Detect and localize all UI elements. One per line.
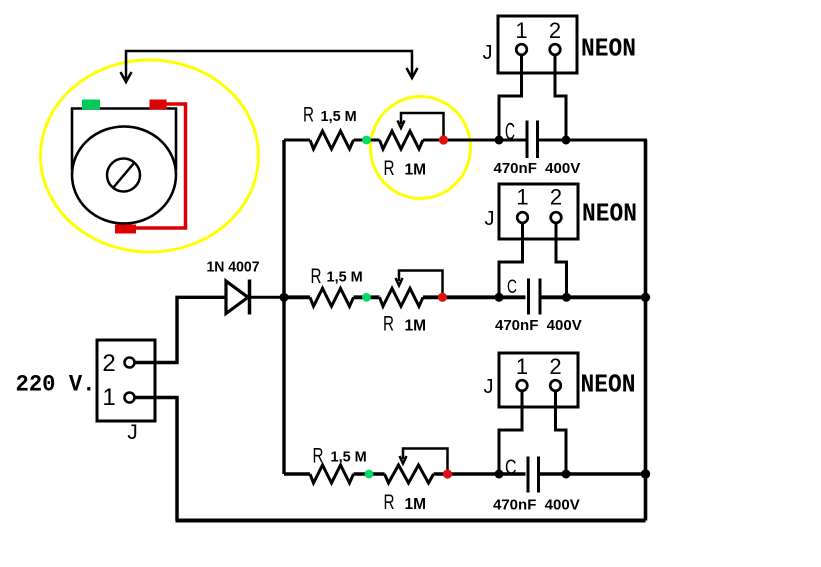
node: red wiper terminal (branch 1) [439,135,448,144]
wire: diode to left bus [248,296,284,299]
junction: branch 2 / right bus [641,293,650,302]
node: red wiper terminal (branch 3) [443,469,452,478]
neon socket box (branch 3) [499,353,578,407]
branch 2 wire [284,295,647,299]
junction: cap right (branch 3) [562,470,571,479]
junction: diode / left bus [280,293,289,302]
svg-text:C: C [505,119,515,146]
wire: mains pin 2 to diode [135,297,226,362]
svg-text:1: 1 [515,18,527,43]
wire: neon pin 1 to cap left (branch 3) [499,390,522,474]
diode D1 1N4007 [226,281,248,314]
callout wire [126,51,412,81]
svg-text:R: R [313,445,324,468]
capacitor C (branch 1) [527,121,538,159]
node: green wiper terminal (branch 2) [362,293,371,302]
svg-text:220 V.: 220 V. [16,372,96,398]
svg-text:J: J [127,421,138,444]
pot detail: body circle [72,127,176,224]
pot wiper bracket (branch 3) [403,449,448,471]
svg-text:1,5 M: 1,5 M [331,450,367,466]
pot detail: body outline [72,109,176,171]
branch 1 wire [284,139,647,142]
resistor R 1,5M (branch 2) [310,288,354,306]
pot wiper arrowhead (branch 3) [400,456,407,464]
svg-text:2: 2 [549,18,561,43]
node: red wiper terminal (branch 2) [438,293,447,302]
neon pin 2 (branch 2) [551,212,562,223]
neon pin 2 (branch 1) [550,44,561,55]
wire: mains pin 1 to bottom bus [135,398,177,521]
svg-text:J: J [483,42,493,64]
svg-text:1M: 1M [405,162,427,179]
svg-text:C: C [505,455,517,479]
svg-text:R: R [384,157,395,180]
wire: neon pin 1 to cap left (branch 2) [499,222,523,297]
potentiometer R 1M (branch 1) [380,131,424,149]
svg-text:R: R [311,265,322,288]
svg-text:1: 1 [516,354,528,379]
junction: branch 3 / right bus [641,469,650,478]
pot wiper bracket (branch 2) [399,271,443,294]
svg-text:470nF 400V: 470nF 400V [493,497,580,514]
svg-text:470nF 400V: 470nF 400V [495,317,582,334]
junction: cap left (branch 3) [495,470,504,479]
neon socket box (branch 2) [499,184,578,239]
mains pin 1 [125,393,135,403]
svg-text:R: R [384,491,395,514]
mains pin 2 [125,358,135,368]
connector J (mains) [97,340,155,421]
wire: neon pin 2 to cap right (branch 3) [556,390,567,474]
pot wiper bracket (branch 1) [401,113,444,136]
branch 3 wire [284,472,647,475]
arrowhead onto potentiometer R1 [407,68,418,78]
svg-text:NEON: NEON [581,34,636,64]
pot wiper arrowhead (branch 2) [396,278,403,286]
svg-text:1,5 M: 1,5 M [327,270,363,286]
pot detail: red terminal tab top [150,100,167,110]
svg-text:1: 1 [516,185,528,210]
capacitor C (branch 3) [528,457,539,493]
potentiometer R 1M (branch 2) [380,288,424,306]
svg-text:R: R [383,313,394,336]
svg-text:1: 1 [102,384,115,411]
svg-text:R: R [303,104,314,127]
wire: neon pin 2 to cap right (branch 1) [555,54,566,140]
left bus wire [282,140,285,474]
right bus wire [644,140,648,521]
node: green wiper terminal (branch 3) [365,470,374,479]
pot wiper arrowhead (branch 1) [398,121,405,129]
pot detail: red jumper wire [136,104,186,228]
yellow circle around potentiometer R1 [371,97,471,199]
neon pin 2 (branch 3) [550,380,561,391]
svg-text:J: J [485,208,495,230]
resistor R 1,5M (branch 3) [310,465,354,483]
detail view yellow circle [41,60,259,252]
svg-text:2: 2 [549,354,561,379]
neon socket box (branch 1) [498,16,577,73]
wire: neon pin 2 to cap right (branch 2) [556,222,567,297]
arrowhead into detail view [121,72,132,82]
resistor R 1,5M (branch 1) [310,131,354,149]
svg-text:J: J [484,376,494,398]
svg-text:NEON: NEON [581,370,636,400]
potentiometer R 1M (branch 3) [385,465,434,483]
pot detail: rotor slot [113,163,135,189]
wire: neon pin 1 to cap left (branch 1) [499,54,522,140]
svg-text:1,5 M: 1,5 M [321,109,357,125]
pot detail: rotor circle [107,159,140,192]
svg-text:1N 4007: 1N 4007 [207,260,260,276]
svg-text:1M: 1M [405,318,427,335]
node: green wiper terminal (branch 1) [362,136,371,145]
junction: cap right (branch 2) [562,293,571,302]
pot detail: green terminal tab [82,100,100,110]
neon pin 1 (branch 1) [516,44,527,55]
capacitor C (branch 2) [529,279,541,315]
neon pin 1 (branch 3) [517,380,528,391]
bottom bus wire [176,519,646,523]
svg-text:2: 2 [550,185,562,210]
junction: cap left (branch 1) [495,136,504,145]
svg-text:1M: 1M [405,496,427,513]
svg-text:C: C [507,277,517,298]
pot detail: red terminal tab bottom [115,225,136,234]
svg-text:2: 2 [102,350,115,377]
neon pin 1 (branch 2) [517,212,528,223]
svg-text:470nF 400V: 470nF 400V [494,160,581,177]
junction: cap right (branch 1) [562,136,571,145]
junction: cap left (branch 2) [495,293,504,302]
diode D1 cathode bar [248,280,252,315]
svg-text:NEON: NEON [582,199,637,229]
